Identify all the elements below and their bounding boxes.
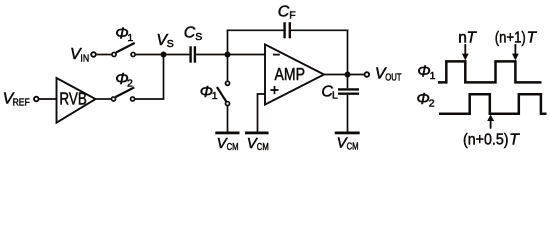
svg-text:T: T xyxy=(527,29,538,46)
svg-text:CM: CM xyxy=(227,141,239,153)
svg-text:1: 1 xyxy=(430,70,436,82)
svg-text:OUT: OUT xyxy=(385,72,402,84)
wire feedback top left xyxy=(227,29,284,31)
waveform phi2 xyxy=(439,94,547,114)
svg-text:1: 1 xyxy=(127,32,133,44)
marker nT arrow xyxy=(464,44,466,55)
wire feedback left vertical xyxy=(227,30,229,55)
supply VCM left bar xyxy=(215,132,239,135)
svg-text:S: S xyxy=(195,31,202,43)
wire switch phi1 to capacitor CS xyxy=(136,54,190,56)
noninverting input marker xyxy=(270,89,278,91)
inverting input marker xyxy=(273,54,280,56)
wire VREF to RVB xyxy=(39,98,56,100)
marker (n+0.5)T arrow xyxy=(490,120,492,129)
svg-text:CM: CM xyxy=(257,141,269,153)
svg-text:(n+1): (n+1) xyxy=(495,29,526,46)
wire CS to amp inverting input xyxy=(196,54,265,56)
svg-text:RVB: RVB xyxy=(59,88,87,108)
terminal VIN xyxy=(91,52,96,57)
wire phi2 to node VS xyxy=(135,55,163,99)
svg-text:IN: IN xyxy=(80,52,89,64)
node output xyxy=(345,72,351,78)
switch phi2 xyxy=(116,87,135,97)
capacitor CS xyxy=(189,46,191,62)
waveform phi1 xyxy=(438,61,542,82)
svg-text:(n+0.5): (n+0.5) xyxy=(463,132,509,149)
svg-text:2: 2 xyxy=(429,97,435,109)
capacitor CF xyxy=(283,22,285,38)
op-amp U1 xyxy=(265,44,324,104)
svg-text:T: T xyxy=(509,132,520,149)
switch phi1 sampling xyxy=(116,43,135,53)
svg-text:Φ: Φ xyxy=(417,64,430,81)
svg-text:1: 1 xyxy=(212,90,218,102)
wire CL to VCM xyxy=(347,95,349,133)
node VS xyxy=(161,52,167,58)
svg-text:C: C xyxy=(184,25,196,42)
wire VIN to switch phi1 xyxy=(97,54,112,56)
wire summing node to switch phi1 reset xyxy=(227,55,229,81)
switch phi1 reset xyxy=(217,87,226,102)
terminal VREF xyxy=(34,97,39,102)
buffer RVB xyxy=(57,78,96,123)
wire output node to CL xyxy=(347,75,349,89)
wire noninverting input to VCM xyxy=(258,94,266,133)
node summing junction xyxy=(225,52,231,58)
wire RVB to switch phi2 xyxy=(96,98,111,100)
svg-text:F: F xyxy=(289,9,295,21)
terminal VOUT xyxy=(365,72,370,77)
capacitor CL xyxy=(338,88,359,90)
svg-text:Φ: Φ xyxy=(416,91,429,108)
wire switch phi1 reset to VCM xyxy=(227,106,229,132)
svg-text:CM: CM xyxy=(347,141,359,153)
svg-text:S: S xyxy=(167,38,174,50)
svg-text:REF: REF xyxy=(13,97,30,109)
svg-text:C: C xyxy=(278,3,290,20)
svg-text:L: L xyxy=(332,89,338,101)
svg-text:AMP: AMP xyxy=(275,64,306,84)
svg-text:2: 2 xyxy=(127,77,133,89)
supply VCM middle bar xyxy=(245,132,269,135)
wire feedback top right xyxy=(291,29,348,31)
wire amp output xyxy=(324,74,364,76)
marker (n+1)T arrow xyxy=(514,44,516,55)
supply VCM right bar xyxy=(335,132,360,135)
svg-text:T: T xyxy=(467,29,478,46)
wire feedback right vertical xyxy=(347,30,349,75)
